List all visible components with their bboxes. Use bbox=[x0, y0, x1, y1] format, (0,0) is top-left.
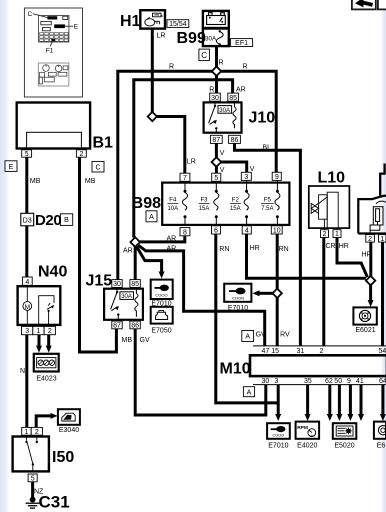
svg-text:M10: M10 bbox=[220, 361, 251, 378]
svg-text:R: R bbox=[209, 86, 214, 93]
svg-text:H1: H1 bbox=[120, 13, 141, 30]
svg-text:10: 10 bbox=[273, 228, 281, 235]
svg-text:1: 1 bbox=[37, 328, 41, 335]
svg-text:HR: HR bbox=[362, 252, 372, 259]
svg-text:35: 35 bbox=[304, 378, 312, 385]
svg-text:E6021: E6021 bbox=[355, 327, 375, 334]
svg-text:A: A bbox=[149, 214, 154, 221]
svg-text:4: 4 bbox=[25, 279, 29, 286]
svg-text:RPM: RPM bbox=[297, 425, 308, 431]
svg-text:M: M bbox=[25, 304, 30, 311]
svg-text:RN: RN bbox=[219, 246, 229, 253]
svg-text:1: 1 bbox=[335, 231, 339, 238]
svg-text:4: 4 bbox=[245, 228, 249, 235]
svg-text:AR: AR bbox=[167, 235, 177, 242]
svg-text:2: 2 bbox=[368, 236, 372, 243]
svg-text:1: 1 bbox=[25, 429, 29, 436]
svg-text:85: 85 bbox=[229, 95, 237, 102]
svg-text:E4023: E4023 bbox=[36, 375, 56, 382]
svg-text:3: 3 bbox=[244, 174, 248, 181]
svg-text:62: 62 bbox=[325, 378, 333, 385]
svg-text:E3040: E3040 bbox=[59, 427, 79, 434]
svg-text:E7010: E7010 bbox=[268, 443, 288, 450]
svg-text:2: 2 bbox=[35, 429, 39, 436]
svg-text:A: A bbox=[245, 334, 250, 341]
svg-text:30: 30 bbox=[262, 378, 270, 385]
svg-text:7.5A: 7.5A bbox=[261, 206, 273, 212]
svg-text:6: 6 bbox=[214, 228, 218, 235]
svg-text:LR: LR bbox=[157, 33, 166, 40]
svg-text:COON: COON bbox=[232, 296, 244, 301]
svg-text:RV: RV bbox=[280, 332, 290, 339]
svg-text:V: V bbox=[250, 166, 255, 173]
svg-text:30A: 30A bbox=[219, 108, 230, 114]
svg-text:COOO: COOO bbox=[272, 434, 284, 438]
svg-text:5: 5 bbox=[31, 476, 35, 483]
svg-text:J10: J10 bbox=[249, 110, 276, 127]
svg-text:9: 9 bbox=[347, 378, 351, 385]
svg-text:5: 5 bbox=[25, 151, 29, 158]
svg-text:BL: BL bbox=[263, 145, 272, 152]
svg-text:5: 5 bbox=[214, 175, 218, 182]
svg-text:E7010: E7010 bbox=[228, 305, 248, 312]
svg-text:2: 2 bbox=[320, 348, 324, 355]
svg-text:J15: J15 bbox=[86, 273, 113, 290]
svg-text:B: B bbox=[64, 217, 69, 224]
svg-text:D3: D3 bbox=[23, 217, 32, 224]
svg-text:54: 54 bbox=[379, 348, 386, 355]
svg-text:RN: RN bbox=[279, 246, 289, 253]
svg-text:9: 9 bbox=[275, 174, 279, 181]
svg-text:F2: F2 bbox=[232, 198, 240, 204]
svg-text:10A: 10A bbox=[167, 206, 178, 212]
svg-text:31: 31 bbox=[297, 348, 305, 355]
svg-text:EF1: EF1 bbox=[235, 40, 248, 47]
svg-text:R: R bbox=[243, 63, 248, 70]
svg-text:F3: F3 bbox=[200, 198, 208, 204]
svg-text:50: 50 bbox=[334, 378, 342, 385]
svg-text:MB: MB bbox=[30, 178, 41, 185]
svg-text:CR: CR bbox=[326, 243, 336, 250]
svg-text:LR: LR bbox=[187, 159, 196, 166]
svg-text:41: 41 bbox=[356, 378, 364, 385]
svg-text:2: 2 bbox=[323, 231, 327, 238]
svg-text:30: 30 bbox=[211, 95, 219, 102]
svg-text:COOO: COOO bbox=[155, 293, 167, 298]
svg-text:F4: F4 bbox=[169, 198, 177, 204]
svg-text:AR: AR bbox=[167, 245, 177, 252]
svg-text:87: 87 bbox=[113, 322, 121, 329]
svg-text:MB: MB bbox=[122, 337, 133, 344]
svg-text:V: V bbox=[220, 167, 225, 174]
svg-text:NZ: NZ bbox=[34, 489, 44, 496]
svg-text:N: N bbox=[20, 368, 25, 375]
svg-text:B99: B99 bbox=[177, 30, 206, 47]
svg-text:87: 87 bbox=[212, 137, 220, 144]
svg-text:30A: 30A bbox=[121, 294, 132, 300]
svg-text:V: V bbox=[220, 150, 225, 157]
svg-text:GV: GV bbox=[140, 337, 150, 344]
svg-text:2: 2 bbox=[48, 328, 52, 335]
svg-text:F5: F5 bbox=[264, 198, 272, 204]
svg-text:E: E bbox=[9, 164, 14, 171]
svg-text:C: C bbox=[28, 11, 33, 18]
svg-text:3: 3 bbox=[25, 328, 29, 335]
svg-text:7: 7 bbox=[183, 175, 187, 182]
svg-text:3: 3 bbox=[275, 378, 279, 385]
svg-text:MB: MB bbox=[85, 178, 96, 185]
svg-text:30A: 30A bbox=[205, 36, 217, 43]
svg-text:86: 86 bbox=[231, 137, 239, 144]
svg-text:47 15: 47 15 bbox=[262, 348, 280, 355]
svg-text:E: E bbox=[74, 24, 79, 31]
svg-text:E7050: E7050 bbox=[151, 327, 171, 334]
svg-text:86: 86 bbox=[131, 322, 139, 329]
svg-text:64: 64 bbox=[379, 378, 386, 385]
svg-text:C: C bbox=[95, 165, 100, 172]
svg-text:D20: D20 bbox=[35, 212, 61, 229]
svg-text:15A: 15A bbox=[199, 206, 210, 212]
svg-text:30: 30 bbox=[113, 281, 121, 288]
svg-text:HR: HR bbox=[339, 243, 349, 250]
svg-text:L10: L10 bbox=[318, 170, 346, 187]
svg-text:I50: I50 bbox=[52, 449, 74, 466]
svg-text:AR: AR bbox=[123, 247, 133, 254]
svg-text:E6: E6 bbox=[377, 443, 386, 450]
svg-text:AR: AR bbox=[236, 86, 246, 93]
svg-text:85: 85 bbox=[131, 281, 139, 288]
svg-text:15/54: 15/54 bbox=[169, 21, 187, 28]
svg-text:R: R bbox=[219, 59, 224, 66]
svg-text:N40: N40 bbox=[38, 264, 67, 281]
svg-text:15A: 15A bbox=[230, 206, 241, 212]
svg-text:B98: B98 bbox=[132, 195, 161, 212]
svg-text:8: 8 bbox=[183, 229, 187, 236]
svg-text:A: A bbox=[247, 390, 252, 397]
svg-text:2: 2 bbox=[79, 151, 83, 158]
svg-text:F1: F1 bbox=[46, 48, 54, 55]
svg-text:R: R bbox=[169, 63, 174, 70]
svg-text:C: C bbox=[201, 51, 207, 60]
svg-text:GV: GV bbox=[256, 332, 266, 339]
svg-text:E5020: E5020 bbox=[334, 443, 354, 450]
svg-text:E4020: E4020 bbox=[297, 443, 317, 450]
svg-text:HR: HR bbox=[250, 245, 260, 252]
svg-text:1: 1 bbox=[380, 236, 384, 243]
svg-text:B1: B1 bbox=[93, 135, 114, 152]
